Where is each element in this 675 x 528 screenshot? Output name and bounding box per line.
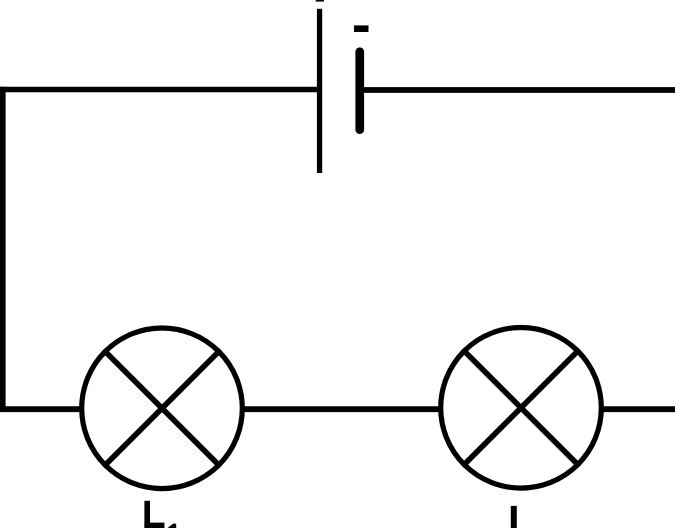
label L1 letter L vertical stroke (cut off at bottom) xyxy=(144,501,150,528)
wire top-right (battery negative plate to right edge) xyxy=(359,87,675,93)
wire left vertical xyxy=(0,87,6,409)
battery B1 wire stub cut at top edge xyxy=(316,0,324,2)
battery B1 negative plate (short, thick) xyxy=(355,47,364,134)
minus sign label at negative plate xyxy=(354,25,369,32)
lamp L1 cross stroke NW-SE xyxy=(103,350,220,467)
lamp L1 cross stroke NE-SW xyxy=(103,350,220,467)
wire top-left (left node to battery positive plate) xyxy=(0,87,320,93)
label L1 subscript 1 tip xyxy=(168,524,177,528)
lamp L2 circle xyxy=(441,328,602,489)
battery B1 positive plate (long) xyxy=(317,9,322,173)
lamp L1 circle xyxy=(82,328,243,489)
label L2 letter L vertical stroke (cut off at bottom) xyxy=(511,506,517,528)
lamp L2 cross stroke NE-SW xyxy=(462,349,579,466)
lamp L2 cross stroke NW-SE xyxy=(462,349,579,466)
label L1 letter L bottom bar xyxy=(144,523,164,528)
wire bottom (through lamps, left edge to right edge) xyxy=(0,406,675,412)
